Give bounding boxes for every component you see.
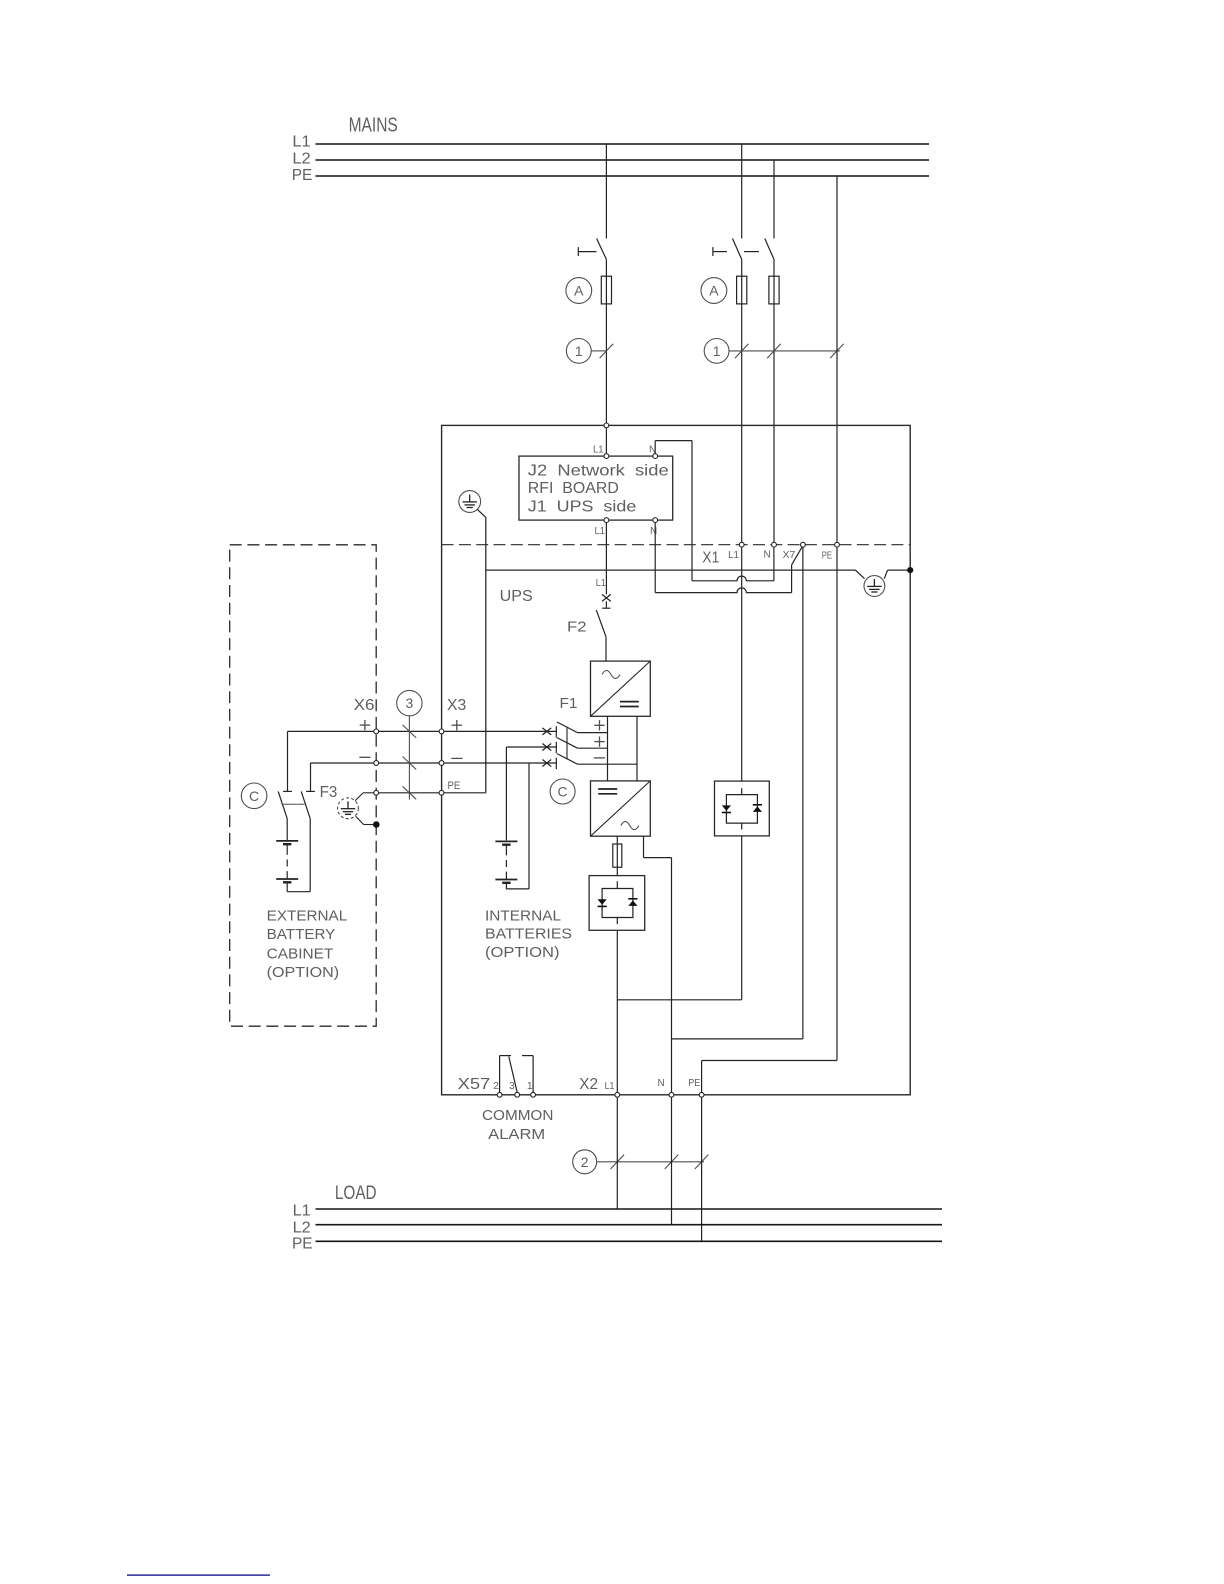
terminal X57 pin 2 xyxy=(497,1092,502,1097)
protective earth symbol (cabinet, dashed) xyxy=(338,798,359,819)
svg-text:2: 2 xyxy=(493,1081,499,1092)
svg-text:2: 2 xyxy=(581,1154,589,1170)
terminal X3 + xyxy=(439,729,444,734)
wire segment to X1 N (hops over bypass L1) xyxy=(692,576,774,581)
alarm changeover contact K1 (X57) xyxy=(499,1056,501,1093)
junction dot on cabinet border xyxy=(373,821,380,828)
wire bypass switch down to output join xyxy=(741,836,743,1000)
mains bus line L1 xyxy=(316,143,930,145)
polarity label + (X6) xyxy=(360,724,370,726)
fuse F5 (bypass L1) xyxy=(741,276,743,304)
svg-text:J2 Network side: J2 Network side xyxy=(528,463,669,480)
svg-text:X1: X1 xyxy=(702,550,719,567)
fuse-switch F1 pole 3 (battery -) xyxy=(555,758,557,769)
svg-text:X7: X7 xyxy=(783,550,796,561)
wire ground symbol to PE wire xyxy=(355,793,363,801)
terminal X3 - xyxy=(439,761,444,766)
wire mains L1 to switch Q2 pole a xyxy=(741,144,743,239)
bolted link X (pole 2) xyxy=(542,744,551,751)
svg-text:1: 1 xyxy=(527,1081,533,1092)
terminal circle at enclosure entry (L1) xyxy=(604,423,609,428)
terminal X3 PE xyxy=(439,790,444,795)
wire up to X1 N terminal xyxy=(773,547,775,581)
svg-text:PE: PE xyxy=(822,550,833,561)
switch F2 blade (open) xyxy=(596,610,606,637)
wire internal battery negative loop xyxy=(506,888,529,890)
mains bus line L2 xyxy=(316,159,930,161)
wire X2 PE to load bus xyxy=(701,1097,703,1241)
wire switch Q1 to fuse F4 xyxy=(605,259,607,276)
svg-text:N: N xyxy=(658,1078,665,1089)
protective earth symbol (RFI area) xyxy=(459,491,481,513)
wire fuse F7 to static switch xyxy=(616,867,618,875)
bolted link X (pole 3) xyxy=(542,760,551,767)
svg-text:L1: L1 xyxy=(728,550,739,561)
terminal X6 - xyxy=(374,761,379,766)
svg-text:LOAD: LOAD xyxy=(335,1183,377,1204)
polarity label + (X3) xyxy=(452,724,462,726)
svg-text:EXTERNAL: EXTERNAL xyxy=(267,908,348,925)
fuse F7 (inverter output) xyxy=(616,844,618,867)
bolted link X (pole 1) xyxy=(542,728,551,735)
wire Q2a to fuse F5 xyxy=(741,259,743,276)
wire DC+ bus rectifier to inverter xyxy=(607,716,609,781)
svg-text:J1 UPS side: J1 UPS side xyxy=(528,498,637,515)
svg-text:1: 1 xyxy=(713,343,721,359)
callout circle C (cabinet) xyxy=(241,783,267,809)
wire static switch to X2 L1 xyxy=(616,930,618,1092)
static switch V1 (antiparallel thyristor box, output) xyxy=(589,876,645,931)
svg-text:PE: PE xyxy=(292,1236,313,1253)
fuse-switch F1 pole 2 (internal battery +) xyxy=(555,742,557,753)
wire battery negative loop xyxy=(287,891,310,893)
bolted link X mark (F2 input) xyxy=(602,594,611,601)
switch Q2 (two-pole bypass disconnect) xyxy=(712,247,714,256)
inner UPS box left edge xyxy=(485,517,487,792)
svg-text:X6: X6 xyxy=(354,697,375,714)
wire X2 L1 to load bus xyxy=(616,1097,618,1209)
wire internal battery + to F1 pole 2 xyxy=(506,746,556,748)
svg-text:L1: L1 xyxy=(605,1081,615,1092)
wire internal battery + drop xyxy=(505,747,507,840)
callout circle A (branch 1) xyxy=(566,278,592,304)
protective earth symbol (enclosure, right) xyxy=(864,576,885,597)
junction dot on enclosure right edge xyxy=(907,567,913,573)
RFI J2 terminal L1 xyxy=(604,454,609,459)
wire PE symbol to inner UPS box xyxy=(477,509,485,517)
wire X1 L1 down to bypass switch xyxy=(741,547,743,781)
battery breaker F3 pole 2 xyxy=(310,763,312,791)
svg-text:L2: L2 xyxy=(293,1220,311,1237)
svg-text:3: 3 xyxy=(509,1081,515,1092)
wire X2 N to load bus xyxy=(671,1097,673,1225)
svg-text:L1: L1 xyxy=(292,134,310,151)
svg-text:X57: X57 xyxy=(458,1076,491,1093)
svg-text:INTERNAL: INTERNAL xyxy=(485,908,561,925)
svg-text:UPS: UPS xyxy=(500,588,533,605)
wire inverter output to fuse F7 xyxy=(616,836,618,844)
RFI J1 terminal L1 xyxy=(604,518,609,523)
svg-text:(OPTION): (OPTION) xyxy=(267,964,339,981)
internal battery GB2 xyxy=(495,840,517,842)
svg-text:L1: L1 xyxy=(596,578,606,589)
load bus line L2 xyxy=(316,1224,943,1226)
svg-text:F2: F2 xyxy=(567,619,587,636)
mains bus line PE xyxy=(316,175,930,177)
callout circle A (branch 2) xyxy=(701,278,727,304)
RFI J2 terminal N xyxy=(653,454,658,459)
svg-text:BATTERY: BATTERY xyxy=(267,926,336,943)
blue footer rule xyxy=(127,1574,270,1576)
wire Q2b to fuse F6 xyxy=(773,259,775,276)
wire mains L1 to switch Q1 xyxy=(605,144,607,239)
wire X7 join to N output xyxy=(672,1038,803,1040)
fuse F6 (bypass N) xyxy=(773,276,775,304)
svg-text:1: 1 xyxy=(575,343,583,359)
wire RFI J2 N up-over-down to X1 N xyxy=(654,441,656,454)
polarity label - (X3) xyxy=(451,757,462,759)
svg-text:L1: L1 xyxy=(593,445,604,456)
wire battery PE (X6/X3 row) xyxy=(374,792,486,794)
svg-text:(OPTION): (OPTION) xyxy=(485,944,560,961)
terminal X1 L1 xyxy=(739,542,744,547)
svg-text:PE: PE xyxy=(688,1078,700,1089)
polarity label + (pole 2) xyxy=(594,741,604,743)
wire DC- bus rectifier to inverter xyxy=(636,716,638,781)
svg-text:PE: PE xyxy=(448,780,461,792)
wire bypass join to L1 output xyxy=(617,999,741,1001)
svg-text:CABINET: CABINET xyxy=(267,946,334,963)
svg-text:F3: F3 xyxy=(320,784,338,801)
terminal X6 PE xyxy=(374,790,379,795)
wire segment to X7 (hops over bypass L1) xyxy=(655,588,791,593)
svg-text:F1: F1 xyxy=(560,695,578,712)
terminal X57 pin 1 xyxy=(531,1092,536,1097)
svg-text:L2: L2 xyxy=(292,151,310,168)
wire RFI J1 L1 down to F2 xyxy=(605,523,607,595)
fuse F4 (rectifier input) xyxy=(605,276,607,304)
svg-text:BATTERIES: BATTERIES xyxy=(485,926,572,943)
fixed contact tick of F2 xyxy=(602,607,610,609)
wire PE down to X2 PE xyxy=(701,1061,703,1093)
terminal X57 pin 3 xyxy=(515,1092,520,1097)
svg-text:N: N xyxy=(764,550,771,561)
svg-text:C: C xyxy=(558,784,568,800)
terminal X2 PE xyxy=(699,1092,704,1097)
wire ground symbol to cabinet chassis xyxy=(356,816,364,824)
inverter U3 (DC/AC converter box) xyxy=(591,781,651,836)
svg-text:COMMON: COMMON xyxy=(482,1108,553,1124)
terminal X2 L1 xyxy=(615,1092,620,1097)
callout circle 1 with cable slash (branch 1) xyxy=(566,339,591,364)
svg-text:PE: PE xyxy=(292,167,313,184)
wire RFI J1 N down-right to X1 X7 xyxy=(654,523,656,593)
inner UPS box top edge with inline PE symbol xyxy=(486,569,856,571)
wire fuse F6 to X1 N xyxy=(773,304,775,542)
RFI J1 terminal N xyxy=(653,518,658,523)
svg-text:ALARM: ALARM xyxy=(488,1127,545,1143)
RFI board U1 box xyxy=(519,456,673,520)
load bus line PE xyxy=(316,1240,943,1242)
wire mains L2 to switch Q2 pole b xyxy=(773,160,775,239)
external battery cabinet dashed box xyxy=(230,545,377,1026)
slanted wire to X7 terminal xyxy=(792,547,803,565)
terminal X1 PE xyxy=(835,542,840,547)
svg-text:A: A xyxy=(574,283,584,299)
wire enclosure entry to RFI J2 L1 xyxy=(605,428,607,454)
svg-text:MAINS: MAINS xyxy=(349,115,398,137)
svg-text:L1: L1 xyxy=(293,1203,311,1220)
wire fuse F5 to X1 L1 xyxy=(741,304,743,542)
UPS outer enclosure box xyxy=(442,425,911,1094)
wire battery + (X6/X3 row) xyxy=(288,730,557,732)
wire X7 terminal down to N output join xyxy=(802,547,804,1039)
wire X1 PE down right side xyxy=(836,547,838,1060)
callout circle 2 with cable slashes (output) xyxy=(573,1150,597,1174)
svg-text:X2: X2 xyxy=(579,1076,598,1093)
svg-text:X3: X3 xyxy=(447,697,466,714)
dashed partition line (terminal row X1) xyxy=(442,544,911,546)
rectifier U2 (AC/DC converter box) xyxy=(591,661,651,716)
svg-text:A: A xyxy=(709,283,719,299)
battery breaker F3 pole 1 xyxy=(287,731,289,791)
mechanical link of F3 xyxy=(282,803,305,805)
load bus line L1 xyxy=(316,1208,943,1210)
polarity label + (pole 1) xyxy=(594,724,604,726)
wire inverter output N to X2 N xyxy=(643,836,645,857)
terminal X1 N xyxy=(772,542,777,547)
callout circle C (UPS side) xyxy=(550,779,575,804)
svg-text:3: 3 xyxy=(406,695,414,711)
polarity label - (X6) xyxy=(359,756,370,758)
switch Q1 (single-pole input disconnect) xyxy=(577,247,579,256)
wire battery - (X6/X3 row) xyxy=(311,762,557,764)
svg-text:RFI BOARD: RFI BOARD xyxy=(528,480,619,497)
svg-text:L1: L1 xyxy=(595,526,606,537)
polarity label - (pole 3) xyxy=(594,757,605,759)
terminal X6 + xyxy=(374,729,379,734)
wire PE across to X2 xyxy=(702,1060,837,1062)
svg-text:N: N xyxy=(650,526,657,537)
svg-text:C: C xyxy=(249,788,259,804)
mechanical link bar of F1 xyxy=(566,728,568,760)
wire mains PE to X1 PE xyxy=(836,176,838,542)
terminal X1 X7 xyxy=(801,542,806,547)
callout circle 3 with cable slashes (battery cable) xyxy=(397,690,422,715)
wire F2 to rectifier xyxy=(605,637,607,661)
terminal X2 N xyxy=(669,1092,674,1097)
wire fuse F4 to UPS enclosure xyxy=(605,304,607,423)
external battery GB1 xyxy=(276,840,298,842)
fuse-switch F1 pole 1 (battery +) xyxy=(555,726,557,737)
callout circle 1 with cable slashes (branch 2) xyxy=(704,339,729,364)
